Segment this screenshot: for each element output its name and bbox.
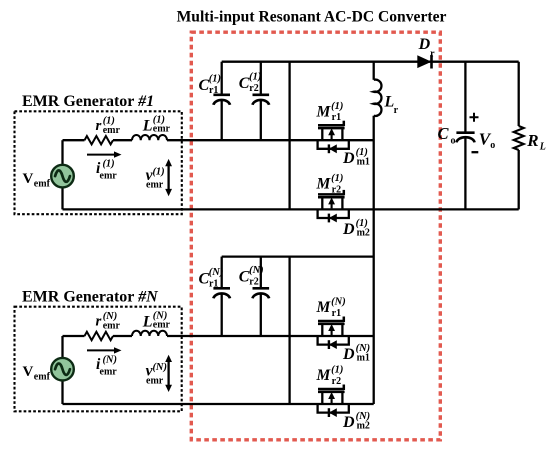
label Co <box>438 124 456 147</box>
svg-text:L: L <box>539 142 546 153</box>
svg-text:C: C <box>438 124 450 143</box>
AC source Vemf gen N <box>51 358 74 381</box>
label Lr <box>384 94 399 117</box>
capacitor Cr2(N) plates <box>253 288 270 298</box>
svg-text:(N): (N) <box>249 265 264 276</box>
svg-text:emr: emr <box>146 180 164 191</box>
current arrow i_emr gen N <box>87 347 122 353</box>
wire vertical drop cell 1 <box>288 62 290 210</box>
svg-text:o: o <box>451 136 456 147</box>
label Dm1(N) <box>342 343 370 363</box>
svg-text:D: D <box>418 36 431 53</box>
capacitor Cr2(1) plates <box>253 95 270 105</box>
wire source top lead gen 1 <box>61 140 63 164</box>
svg-text:(1): (1) <box>331 173 343 184</box>
svg-text:V: V <box>23 364 34 380</box>
label Cr2(1) <box>239 71 262 94</box>
label Cr1(1) <box>199 73 222 96</box>
svg-text:r: r <box>96 118 102 134</box>
svg-text:m2: m2 <box>357 228 370 239</box>
label Dm2(N) <box>342 411 370 431</box>
label Cr1(N) <box>199 267 224 290</box>
svg-text:r1: r1 <box>209 278 218 289</box>
svg-text:(1): (1) <box>209 73 221 84</box>
wire top resonant rail cell N <box>222 255 374 257</box>
capacitor Cr2(1) bottom lead <box>260 99 262 140</box>
wire source bottom lead gen 1 <box>61 188 63 210</box>
svg-text:L: L <box>142 118 153 135</box>
converter red dashed box <box>191 32 440 440</box>
label L_emr gen 1 <box>142 115 171 135</box>
svg-text:(1): (1) <box>102 159 114 170</box>
svg-text:(1): (1) <box>152 166 164 177</box>
capacitor Cr1(1) plates <box>213 95 230 105</box>
label Dm1(1) <box>342 147 370 167</box>
svg-text:M: M <box>316 103 332 120</box>
svg-text:D: D <box>342 150 355 167</box>
capacitor Cr1(1) top lead <box>221 62 223 94</box>
svg-text:r: r <box>96 314 102 330</box>
label i_emr gen 1 <box>96 159 117 182</box>
body diode Dm1(1) <box>318 140 349 153</box>
svg-text:EMR Generator #1: EMR Generator #1 <box>22 93 154 110</box>
capacitor Cr2(1) top lead <box>260 62 262 94</box>
wire source bottom lead gen N <box>61 381 63 404</box>
svg-text:(1): (1) <box>331 101 343 112</box>
svg-text:D: D <box>342 346 355 363</box>
svg-text:V: V <box>23 171 34 187</box>
svg-text:r2: r2 <box>332 376 341 387</box>
label Mr1(N) <box>316 297 346 319</box>
voltage arrow v_emr gen N <box>165 355 172 392</box>
body diode Dm1(N) <box>318 336 349 349</box>
svg-text:emr: emr <box>103 125 121 136</box>
capacitor Cr1(N) top lead <box>221 257 223 288</box>
svg-text:m1: m1 <box>357 157 370 168</box>
capacitor Co plates <box>456 133 474 143</box>
svg-text:M: M <box>316 367 332 384</box>
resistor r_emr gen 1 <box>85 136 114 144</box>
svg-text:(1): (1) <box>249 71 261 82</box>
capacitor Cr2(N) top lead <box>260 257 262 288</box>
svg-text:(N): (N) <box>102 354 117 365</box>
svg-text:Multi-input Resonant AC-DC Con: Multi-input Resonant AC-DC Converter <box>177 9 447 26</box>
label Mr1(1) <box>316 101 344 123</box>
label v_emr gen 1 <box>146 166 165 190</box>
EMR Generator #N dashed box <box>15 307 182 412</box>
label r_emr gen N <box>96 311 121 332</box>
label Dm2(1) <box>342 218 370 238</box>
wire resonant node vertical (Lr bottom to rail4) <box>373 116 375 404</box>
svg-text:m1: m1 <box>357 352 370 363</box>
wire rail 4 (genN bottom) <box>63 403 374 405</box>
wire source top lead gen N <box>61 336 63 358</box>
svg-text:(N): (N) <box>152 362 167 373</box>
svg-text:(N): (N) <box>331 297 346 308</box>
svg-text:r2: r2 <box>332 184 341 195</box>
transistor Mr1(N) <box>318 317 345 337</box>
label Vemf gen N <box>23 364 51 383</box>
svg-text:emr: emr <box>153 319 171 330</box>
label RL <box>526 131 546 153</box>
svg-text:emr: emr <box>100 171 118 182</box>
capacitor Cr2(N) bottom lead <box>260 293 262 336</box>
label Vo <box>479 130 495 152</box>
minus sign <box>472 151 479 153</box>
current arrow i_emr gen 1 <box>87 151 122 157</box>
label Vemf gen 1 <box>23 171 51 190</box>
capacitor Cr1(N) bottom lead <box>221 293 223 336</box>
svg-text:emr: emr <box>100 366 118 377</box>
svg-text:(1): (1) <box>331 365 343 376</box>
resistor RL <box>514 62 524 210</box>
svg-text:r1: r1 <box>209 85 218 96</box>
transistor Mr1(1) <box>318 121 345 141</box>
svg-text:emr: emr <box>146 375 164 386</box>
label Cr2(N) <box>239 265 264 288</box>
plus sign <box>470 113 479 122</box>
svg-text:emf: emf <box>34 179 51 190</box>
svg-text:r2: r2 <box>249 83 258 94</box>
svg-text:m2: m2 <box>357 420 370 431</box>
svg-text:emf: emf <box>34 372 51 383</box>
capacitor Cr1(N) plates <box>213 288 230 298</box>
wire rail 2 (gen1 bottom / output return) <box>63 208 519 210</box>
svg-text:emr: emr <box>103 321 121 332</box>
capacitor Cr1(1) bottom lead <box>221 99 223 140</box>
svg-text:emr: emr <box>153 124 171 135</box>
svg-text:r: r <box>394 105 399 116</box>
wire vertical drop cell N <box>288 257 290 404</box>
diode Dr <box>417 55 431 69</box>
svg-text:r2: r2 <box>249 276 258 287</box>
resistor r_emr gen N <box>85 332 114 340</box>
svg-text:D: D <box>342 414 355 431</box>
wire rail 1 (gen1 top) <box>63 139 374 141</box>
transistor Mr2(N) <box>318 385 345 405</box>
capacitor Co lead <box>464 62 466 132</box>
body diode Dm2(N) <box>318 404 349 417</box>
label Mr2(N) <box>316 365 344 387</box>
wire rail 3 (genN top) <box>63 335 374 337</box>
svg-text:o: o <box>490 140 495 151</box>
EMR Generator #1 dashed box <box>15 111 182 214</box>
label v_emr gen N <box>146 362 167 386</box>
wire top resonant rail cell 1 <box>222 61 519 63</box>
label i_emr gen N <box>96 354 117 377</box>
inductor L_emr gen N <box>132 331 167 336</box>
voltage arrow v_emr gen 1 <box>165 159 172 196</box>
inductor Lr <box>374 62 382 116</box>
svg-text:EMR Generator #N: EMR Generator #N <box>22 288 159 305</box>
label r_emr gen 1 <box>96 115 121 136</box>
label Mr2(1) <box>316 173 344 195</box>
inductor L_emr gen 1 <box>132 135 167 140</box>
transistor Mr2(1) <box>318 190 345 210</box>
capacitor Co bottom lead <box>464 137 466 209</box>
svg-text:D: D <box>342 221 355 238</box>
svg-text:r1: r1 <box>332 308 341 319</box>
svg-text:M: M <box>316 176 332 193</box>
AC source Vemf gen 1 <box>51 165 74 188</box>
svg-text:(N): (N) <box>209 267 224 278</box>
body diode Dm2(1) <box>318 209 349 222</box>
svg-text:R: R <box>526 131 538 150</box>
svg-text:r1: r1 <box>332 112 341 123</box>
svg-text:L: L <box>142 313 153 330</box>
svg-text:r: r <box>430 49 435 60</box>
svg-text:M: M <box>316 299 332 316</box>
label Dr <box>418 36 436 60</box>
label L_emr gen N <box>142 310 171 330</box>
